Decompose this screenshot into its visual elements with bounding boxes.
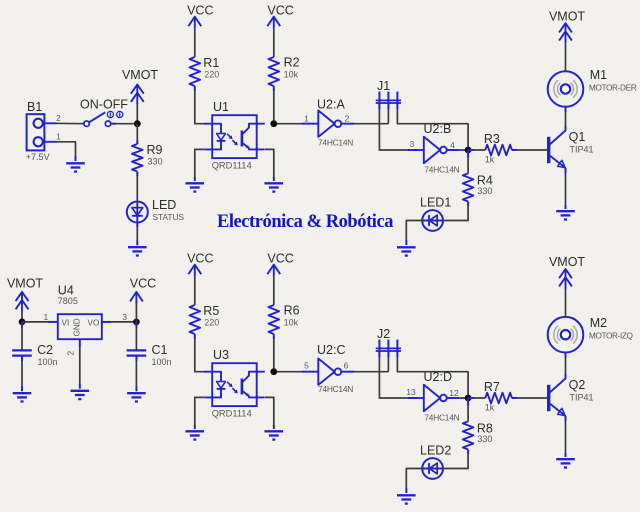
power flag VMOT (battery switch net) <box>122 68 158 124</box>
svg-text:1k: 1k <box>485 154 495 164</box>
svg-text:74HC14N: 74HC14N <box>318 384 353 394</box>
wire R2 to collector node <box>273 86 275 124</box>
svg-text:VCC: VCC <box>187 252 213 266</box>
svg-text:Q1: Q1 <box>569 130 586 144</box>
svg-text:QRD1114: QRD1114 <box>212 408 252 418</box>
svg-text:Q2: Q2 <box>569 378 586 392</box>
svg-text:TIP41: TIP41 <box>570 145 594 155</box>
svg-text:J1: J1 <box>377 79 390 93</box>
inverter U2:B 74HC14N <box>410 122 460 175</box>
wire U4 VO to node <box>102 312 137 322</box>
ground under B1 <box>66 163 85 171</box>
wire Q2 emitter to ground <box>565 416 567 457</box>
svg-text:10k: 10k <box>284 70 299 80</box>
svg-text:74HC14N: 74HC14N <box>424 165 459 175</box>
LED STATUS <box>127 198 185 223</box>
svg-text:U2:D: U2:D <box>424 370 452 384</box>
wire Q1 emitter to ground <box>565 168 567 209</box>
ground under LED1 <box>397 247 416 255</box>
power flag VCC (U4 output) <box>130 277 156 322</box>
svg-text:VI: VI <box>62 319 70 328</box>
ground under U1 cathode <box>186 183 205 191</box>
node VMOT/C2/U4-VI <box>19 319 26 326</box>
wire U2:D output to node <box>447 397 468 399</box>
svg-text:VCC: VCC <box>267 252 293 266</box>
ground under LED2 <box>397 495 416 503</box>
wire J2 pin1 to U2:D input <box>379 357 423 398</box>
node VCC/C1/U4-VO <box>133 319 140 326</box>
motor M1 MOTOR-DER <box>548 68 637 107</box>
svg-text:MOTOR-DER: MOTOR-DER <box>589 83 637 93</box>
jumper J2 <box>376 327 401 357</box>
optical sensor U1 QRD1114 <box>204 100 265 170</box>
wire LED2 to ground <box>406 469 422 494</box>
svg-text:LED1: LED1 <box>420 196 451 210</box>
svg-text:VO: VO <box>88 319 100 328</box>
svg-text:2: 2 <box>345 114 350 124</box>
node U2:D output <box>465 395 472 402</box>
svg-text:GND: GND <box>73 318 82 336</box>
svg-text:1: 1 <box>56 132 61 142</box>
node R6/U3 collector <box>270 368 277 375</box>
svg-text:6: 6 <box>344 361 349 371</box>
wire J2 pin3 to output node <box>397 357 468 398</box>
svg-text:MOTOR-IZQ: MOTOR-IZQ <box>589 331 634 341</box>
wire Q1 collector to M1 <box>565 107 567 131</box>
power flag VCC (R2) <box>267 4 293 57</box>
svg-text:R3: R3 <box>484 132 500 146</box>
ground under Q2 <box>556 459 575 467</box>
svg-text:3: 3 <box>410 139 415 149</box>
wire U4 GND pin to ground <box>66 339 80 388</box>
wire U3 emitter to ground <box>265 397 274 429</box>
svg-text:R1: R1 <box>203 56 219 70</box>
ground under U4 <box>71 391 90 399</box>
wire U3 cathode to ground <box>195 397 204 429</box>
svg-text:VMOT: VMOT <box>122 68 158 82</box>
svg-text:C1: C1 <box>152 343 168 357</box>
svg-text:R6: R6 <box>284 304 300 318</box>
inverter U2:C 74HC14N <box>304 343 353 394</box>
wire U1 emitter to ground <box>265 149 274 181</box>
capacitor C1 <box>127 322 172 391</box>
svg-text:VCC: VCC <box>187 4 213 18</box>
svg-text:100n: 100n <box>152 357 172 367</box>
wire R5 to U3 anode <box>195 334 206 372</box>
transistor Q1 TIP41 <box>549 130 594 168</box>
optical sensor U3 QRD1114 <box>204 348 265 418</box>
node R2/U1 collector <box>270 120 277 127</box>
power flag VCC (R6) <box>267 252 293 305</box>
svg-text:QRD1114: QRD1114 <box>212 160 252 170</box>
svg-text:13: 13 <box>406 387 416 397</box>
power flag VMOT (U4 input) <box>7 277 43 322</box>
svg-text:2: 2 <box>56 113 61 123</box>
wire U2:A output to J1 pin2 <box>341 109 388 123</box>
svg-text:330: 330 <box>477 186 492 196</box>
resistor R8 <box>443 398 493 469</box>
svg-text:M1: M1 <box>590 68 607 82</box>
power flag VMOT (M1) <box>549 9 585 71</box>
wire U2:C output to J2 pin2 <box>341 357 388 371</box>
svg-text:STATUS: STATUS <box>153 212 185 222</box>
motor M2 MOTOR-IZQ <box>548 316 634 353</box>
ground under U3 emitter <box>265 431 284 439</box>
banner text <box>217 212 393 232</box>
svg-text:4: 4 <box>450 140 455 150</box>
svg-text:R7: R7 <box>484 380 500 394</box>
wire switch to VMOT node <box>111 123 138 125</box>
svg-text:U2:A: U2:A <box>317 97 345 111</box>
svg-text:VCC: VCC <box>130 277 156 291</box>
svg-text:TIP41: TIP41 <box>570 393 594 403</box>
switch ON-OFF <box>80 98 128 127</box>
svg-text:2: 2 <box>66 351 76 356</box>
svg-text:C2: C2 <box>37 343 53 357</box>
ground under Q1 <box>556 211 575 219</box>
node switch/VMOT/R9 junction <box>134 120 141 127</box>
wire B1 pin1 to ground <box>55 142 76 161</box>
ground under C1 <box>127 393 146 401</box>
resistor R9 <box>132 124 163 202</box>
svg-text:100n: 100n <box>38 357 58 367</box>
wire J1 pin1 to U2:B input <box>379 109 423 150</box>
resistor R2 <box>269 56 300 86</box>
voltage regulator U4 7805 <box>58 283 102 339</box>
svg-text:J2: J2 <box>377 327 390 341</box>
transistor Q2 TIP41 <box>549 378 594 416</box>
wire Q2 collector to M2 <box>565 353 567 379</box>
inverter U2:A 74HC14N <box>304 97 353 147</box>
ground under LED STATUS <box>128 247 147 255</box>
svg-text:VCC: VCC <box>267 4 293 18</box>
wire LED1 to ground <box>406 221 422 246</box>
power flag VMOT (M2) <box>549 255 585 317</box>
resistor R5 <box>190 304 220 334</box>
svg-text:U3: U3 <box>213 348 229 362</box>
inverter U2:D 74HC14N <box>406 370 459 423</box>
svg-text:7805: 7805 <box>58 296 78 306</box>
resistor R1 <box>190 56 220 86</box>
wire LED to ground <box>136 223 138 246</box>
svg-text:R5: R5 <box>203 304 219 318</box>
LED1 <box>420 196 451 231</box>
svg-text:VMOT: VMOT <box>549 255 585 269</box>
svg-text:1k: 1k <box>485 402 495 412</box>
svg-text:U1: U1 <box>213 100 229 114</box>
wire B1 pin2 to switch <box>55 122 84 124</box>
resistor R6 <box>269 304 300 334</box>
svg-text:VMOT: VMOT <box>549 9 585 23</box>
svg-text:R2: R2 <box>284 56 300 70</box>
ground under C2 <box>13 393 32 401</box>
svg-text:ON-OFF: ON-OFF <box>80 98 128 112</box>
wire R1 to U1 anode <box>195 86 206 124</box>
svg-text:5: 5 <box>304 361 309 371</box>
svg-text:B1: B1 <box>27 100 42 114</box>
ground under U3 cathode <box>186 431 205 439</box>
svg-text:74HC14N: 74HC14N <box>424 413 459 423</box>
svg-text:M2: M2 <box>590 316 607 330</box>
jumper J1 <box>376 79 401 109</box>
svg-text:330: 330 <box>477 434 492 444</box>
svg-text:3: 3 <box>122 312 127 322</box>
svg-text:+7.5V: +7.5V <box>26 152 50 162</box>
svg-text:220: 220 <box>204 318 219 328</box>
resistor R3 <box>468 132 547 164</box>
power flag VCC (R1) <box>187 4 213 57</box>
svg-text:VMOT: VMOT <box>7 277 43 291</box>
wire node to U4 VI <box>22 312 58 322</box>
wire J1 pin3 to output node <box>397 109 468 150</box>
svg-text:Electrónica & Robótica: Electrónica & Robótica <box>217 212 393 232</box>
svg-text:LED: LED <box>152 198 176 212</box>
resistor R7 <box>468 380 547 412</box>
connector B1 <box>26 100 61 162</box>
power flag VCC (R5) <box>187 252 213 305</box>
svg-text:1: 1 <box>304 114 309 124</box>
svg-text:330: 330 <box>148 157 163 167</box>
svg-text:10k: 10k <box>284 318 299 328</box>
wire U2:B output to node <box>447 149 468 151</box>
svg-text:1: 1 <box>44 312 49 322</box>
resistor R4 <box>443 150 493 221</box>
svg-text:220: 220 <box>204 70 219 80</box>
LED2 <box>420 444 451 479</box>
ground under U1 emitter <box>265 183 284 191</box>
wire collector node to U2:C input <box>274 371 319 373</box>
svg-text:12: 12 <box>449 388 459 398</box>
svg-text:LED2: LED2 <box>420 444 451 458</box>
wire R6 to collector node <box>273 334 275 372</box>
svg-text:U2:C: U2:C <box>317 343 345 357</box>
wire collector node to U2:A input <box>274 123 319 125</box>
svg-text:R9: R9 <box>147 143 163 157</box>
svg-text:74HC14N: 74HC14N <box>318 138 353 148</box>
svg-text:U2:B: U2:B <box>424 122 452 136</box>
capacitor C2 <box>12 322 57 391</box>
node U2:B output <box>465 147 472 154</box>
wire U1 cathode to ground <box>195 149 204 181</box>
